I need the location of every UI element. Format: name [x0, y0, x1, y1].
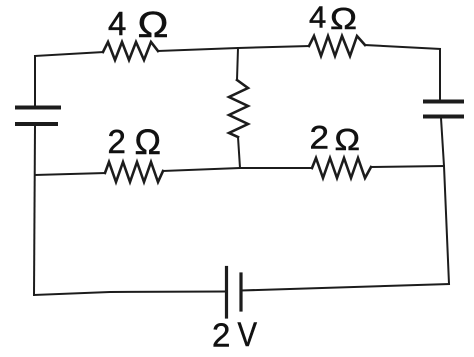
- wire left-lower vertical: [34, 126, 35, 295]
- resistor R5 center vertical: [229, 80, 248, 137]
- battery B1 short plate: [239, 274, 242, 310]
- svg-text:Ω: Ω: [138, 4, 169, 45]
- wire left-upper vertical: [34, 56, 36, 106]
- svg-text:Ω: Ω: [335, 123, 361, 157]
- wire center vertical bottom lead: [238, 137, 240, 168]
- svg-text:Ω: Ω: [135, 123, 162, 162]
- svg-text:2: 2: [310, 120, 330, 156]
- battery B1 long plate: [225, 268, 228, 318]
- capacitor C1 left plate bottom: [17, 122, 56, 126]
- wire top-middle segment: [158, 46, 309, 51]
- svg-text:Ω: Ω: [330, 1, 357, 36]
- svg-text:4: 4: [309, 0, 326, 35]
- resistor R3 2 ohm middle-left: [105, 162, 163, 182]
- wire bottom-right segment: [241, 284, 449, 291]
- resistor R1 4 ohm top-left: [103, 42, 158, 60]
- svg-text:2: 2: [212, 317, 230, 354]
- wire middle-center segment: [163, 168, 312, 171]
- wire right-upper vertical: [439, 49, 441, 100]
- resistor R2 4 ohm top-right: [309, 36, 365, 56]
- svg-text:2: 2: [108, 123, 126, 160]
- wire bottom-left segment: [34, 292, 226, 296]
- capacitor C2 right plate top: [425, 100, 462, 104]
- capacitor C1 left plate top: [17, 106, 59, 110]
- capacitor C2 right plate bottom: [425, 115, 462, 119]
- svg-text:4: 4: [108, 5, 126, 42]
- wire top-left segment: [35, 52, 103, 56]
- wire middle-right segment: [371, 166, 444, 167]
- resistor R4 2 ohm middle-right: [312, 158, 371, 178]
- svg-text:V: V: [238, 316, 258, 354]
- wire top-right segment: [365, 45, 440, 49]
- wire right-lower vertical: [441, 118, 449, 284]
- wire middle-left segment: [35, 173, 105, 175]
- wire center vertical top lead: [237, 48, 238, 80]
